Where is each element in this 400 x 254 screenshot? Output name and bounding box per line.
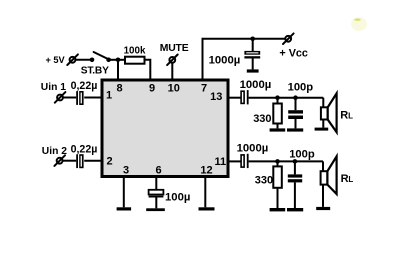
svg-text:13: 13 — [210, 91, 222, 103]
svg-text:R: R — [341, 173, 349, 185]
ground — [287, 208, 303, 211]
svg-text:R: R — [340, 110, 348, 122]
wire pin 9 lead — [145, 60, 151, 80]
svg-text:100µ: 100µ — [165, 191, 190, 203]
svg-text:12: 12 — [200, 165, 212, 177]
svg-text:9: 9 — [149, 83, 155, 95]
ground — [270, 128, 286, 131]
svg-text:0,22µ: 0,22µ — [71, 80, 98, 92]
svg-text:100p: 100p — [288, 82, 314, 94]
node output 1 / R junction — [275, 95, 280, 100]
wire pin 10 lead — [171, 63, 173, 80]
node output 2 / R junction — [275, 159, 280, 164]
node output 1 / C junction — [293, 95, 298, 100]
connector Uin 1 — [55, 92, 66, 103]
IC U1 body — [102, 80, 228, 177]
capacitor C 1000µ Vcc — [209, 39, 261, 70]
wire pin 11 lead — [228, 160, 241, 162]
svg-text:100p: 100p — [289, 148, 315, 160]
svg-text:7: 7 — [201, 83, 207, 95]
wire pin 3 lead — [123, 177, 125, 208]
resistor 330 channel 2 — [255, 161, 282, 208]
svg-text:0,22µ: 0,22µ — [71, 143, 98, 155]
wire — [63, 97, 76, 99]
svg-text:MUTE: MUTE — [160, 43, 189, 54]
connector Uin 2 — [54, 155, 65, 166]
svg-text:+ Vcc: + Vcc — [279, 47, 308, 59]
connector +5V input — [67, 54, 78, 65]
wire — [84, 97, 102, 99]
capacitor C 100µ — [149, 190, 191, 209]
ground — [315, 128, 329, 131]
svg-text:Uin 1: Uin 1 — [41, 82, 66, 93]
wire — [249, 97, 324, 99]
node Vcc junction — [250, 37, 255, 42]
connector MUTE — [167, 55, 178, 66]
resistor 100k — [124, 46, 146, 64]
resistor 330 channel 1 — [253, 98, 282, 129]
svg-text:3: 3 — [123, 165, 129, 177]
svg-text:100k: 100k — [124, 46, 146, 57]
svg-text:1000µ: 1000µ — [209, 54, 241, 66]
capacitor C 0.22µ input 2 — [71, 143, 98, 168]
wire pin 13 lead — [228, 97, 241, 99]
wire pin 8 lead — [117, 60, 119, 80]
svg-text:1: 1 — [106, 90, 112, 102]
svg-text:6: 6 — [155, 165, 161, 177]
wire pin 12 lead — [204, 177, 206, 208]
svg-text:330: 330 — [255, 174, 273, 186]
svg-text:+ 5V: + 5V — [46, 55, 66, 65]
svg-text:1000µ: 1000µ — [240, 79, 272, 91]
wire pin 7 to Vcc rail — [203, 39, 286, 80]
ground — [247, 69, 259, 72]
svg-text:2: 2 — [106, 156, 112, 168]
ground — [287, 128, 303, 131]
svg-text:10: 10 — [168, 83, 180, 95]
svg-text:L: L — [348, 112, 353, 121]
wire — [109, 59, 125, 61]
capacitor C 0.22µ input 1 — [71, 80, 98, 105]
connector +Vcc — [279, 33, 308, 59]
node output 2 / C junction — [293, 159, 298, 164]
ground — [146, 208, 165, 211]
node switch/pin8 junction — [116, 58, 121, 63]
ground — [316, 207, 330, 210]
ground — [199, 207, 215, 210]
switch ST.BY — [81, 52, 111, 76]
wire — [249, 160, 323, 162]
svg-text:ST.BY: ST.BY — [81, 65, 109, 76]
speaker RL channel 2 — [321, 156, 354, 207]
ground — [117, 207, 132, 210]
wire — [76, 59, 93, 61]
svg-text:1000µ: 1000µ — [237, 142, 269, 154]
speaker RL channel 1 — [321, 93, 353, 132]
wire pin 6 lead — [155, 177, 157, 190]
capacitor C 100p channel 2 — [288, 148, 315, 208]
svg-text:8: 8 — [116, 83, 122, 95]
svg-text:L: L — [348, 175, 353, 184]
capacitor C 1000µ output 1 — [240, 79, 272, 105]
capacitor C 1000µ output 2 — [237, 142, 269, 168]
svg-text:11: 11 — [214, 156, 226, 168]
ground — [270, 208, 286, 211]
wire — [63, 160, 77, 162]
capacitor C 100p channel 1 — [288, 82, 314, 129]
svg-text:330: 330 — [253, 113, 271, 125]
wire — [84, 160, 102, 162]
